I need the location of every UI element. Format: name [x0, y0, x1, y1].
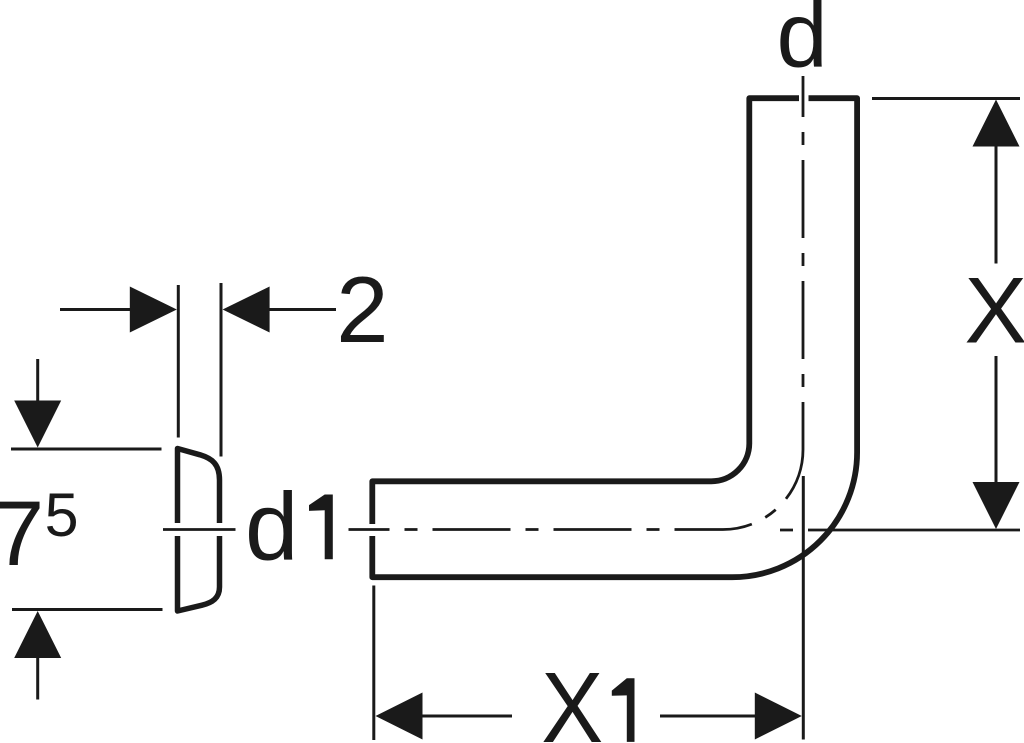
svg-text:d: d — [777, 0, 828, 87]
svg-text:X: X — [541, 653, 603, 743]
svg-text:2: 2 — [336, 257, 388, 362]
svg-text:7: 7 — [0, 483, 44, 585]
svg-text:5: 5 — [45, 481, 79, 549]
svg-text:d: d — [245, 474, 298, 581]
svg-text:X: X — [964, 257, 1024, 362]
